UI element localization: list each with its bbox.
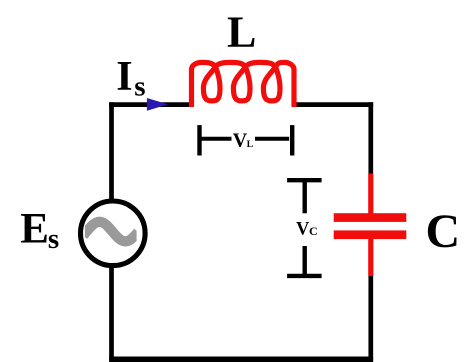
wire top-left horizontal	[112, 102, 194, 104]
inductor L (red coil)	[192, 62, 295, 107]
wire bottom horizontal	[109, 357, 373, 362]
svg-text:L: L	[227, 8, 256, 57]
svg-text:C: C	[426, 205, 461, 258]
svg-text:s: s	[48, 223, 59, 255]
svg-text:V: V	[296, 220, 310, 240]
voltage bracket V_C	[287, 180, 322, 276]
label E_s	[20, 206, 59, 255]
capacitor red lead lower	[368, 239, 373, 276]
svg-text:s: s	[134, 71, 145, 103]
capacitor red lead upper	[368, 174, 373, 214]
wire right upper (black above capacitor)	[368, 102, 373, 175]
svg-text:C: C	[309, 224, 318, 238]
svg-text:L: L	[247, 139, 254, 150]
svg-text:V: V	[233, 129, 248, 151]
wire right lower (black below capacitor)	[368, 275, 373, 362]
label V_L	[233, 129, 254, 151]
label I_s	[116, 54, 145, 103]
voltage source E1 (AC source circle with sine)	[81, 201, 146, 266]
svg-text:E: E	[20, 206, 49, 253]
label V_C	[296, 220, 318, 240]
wire top-right horizontal	[293, 105, 371, 107]
current arrow I_s (blue arrowhead)	[147, 98, 168, 111]
capacitor C (red plates)	[334, 213, 407, 239]
wire left upper (source top lead)	[109, 102, 114, 200]
voltage bracket V_L	[200, 125, 293, 155]
svg-text:I: I	[116, 54, 132, 100]
wire left lower (source bottom lead)	[112, 267, 114, 359]
